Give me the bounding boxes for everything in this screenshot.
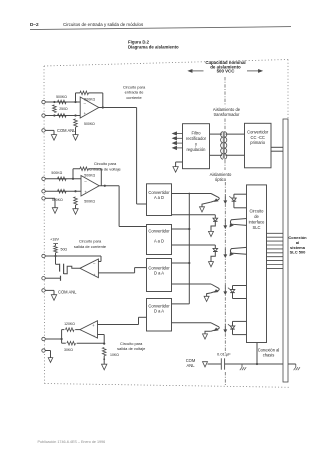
ground voltage output common xyxy=(48,358,53,363)
backplane connector bar xyxy=(283,119,288,382)
isolation barrier line upper segment xyxy=(224,77,226,106)
svg-text:500KΩ: 500KΩ xyxy=(84,173,95,177)
wire U2 output xyxy=(99,185,119,187)
terminal current output xyxy=(42,254,45,257)
optocoupler 1 photodetector xyxy=(234,193,247,195)
resistor 500K ohm series vin line2 xyxy=(58,189,67,193)
transistor Q1 gate bar xyxy=(63,264,65,274)
wire CC-CC to backplane 2 xyxy=(271,150,283,152)
A/D converter box 2 xyxy=(147,225,172,255)
svg-text:A a D: A a D xyxy=(154,195,164,200)
wire vin line 1 xyxy=(45,178,81,180)
svg-text:30KΩ: 30KΩ xyxy=(64,348,73,352)
wire converter1 to bus xyxy=(172,193,190,195)
wire feedback U1 xyxy=(75,93,77,102)
svg-text:SLC 500: SLC 500 xyxy=(290,250,307,255)
node feedback tap U2 xyxy=(72,178,74,180)
optocoupler 3 LED (from interface) xyxy=(230,247,246,254)
wire CC-CC to backplane 1 xyxy=(271,146,283,148)
wire filter to transformer top xyxy=(210,133,223,135)
wire voltage output common xyxy=(45,350,50,352)
svg-text:Diagrama de aislamiento: Diagrama de aislamiento xyxy=(128,44,179,49)
chassis ground 2 xyxy=(295,364,297,367)
svg-text:primario: primario xyxy=(250,140,266,145)
wire feedback U2 xyxy=(72,169,74,179)
wire filter to transformer bottom xyxy=(210,154,223,156)
resistor 120K ohm feedback U4 xyxy=(66,328,75,332)
wire xyxy=(75,118,77,120)
A/D converter box 1 xyxy=(147,184,172,216)
svg-text:COM ANL: COM ANL xyxy=(57,128,76,133)
chassis ground 1 xyxy=(241,364,243,367)
node U2 output/feedback xyxy=(104,185,106,187)
wire into A/D converter 1 xyxy=(137,203,147,205)
resistor 10K ohm to ground xyxy=(102,348,106,356)
wire transformer to CC-CC bottom xyxy=(226,154,245,156)
ground COM ANL (current output) xyxy=(51,295,56,301)
module dashed border bottom xyxy=(45,384,290,388)
terminal voltage input - xyxy=(42,190,45,193)
wire supply xyxy=(55,244,57,246)
terminal voltage input + xyxy=(42,177,45,180)
optocoupler 3 light arrow xyxy=(224,249,226,256)
isolation barrier line bottom segment xyxy=(224,372,226,386)
svg-text:D–2: D–2 xyxy=(30,22,39,27)
ground COM ANL bottom xyxy=(203,362,208,367)
node below 10K xyxy=(103,358,105,360)
wire filter box to ground xyxy=(176,161,183,163)
ground filter box xyxy=(173,167,178,173)
CC-CC primary converter box xyxy=(245,123,272,168)
wire COM ANL terminal xyxy=(45,129,54,131)
transistor Q1 xyxy=(55,256,57,264)
optocoupler 2 light arrow xyxy=(224,220,226,227)
optocoupler 1 light arrow xyxy=(224,195,226,202)
wire backplane bar to chassis xyxy=(288,363,296,365)
wire resistor to node xyxy=(55,253,57,256)
isolation barrier line above transformer xyxy=(224,119,226,131)
emitter plate Q1 xyxy=(60,276,62,281)
capacitor C1 0.01 uF xyxy=(220,358,222,369)
svg-text:de: de xyxy=(254,214,259,219)
supply tick +18V xyxy=(53,243,58,245)
wire converter4 to bus xyxy=(172,303,190,305)
wire U4 top input from D/A converter 2 xyxy=(98,324,139,326)
node bus/converter3 xyxy=(188,262,190,264)
wire COM ANL to capacitor xyxy=(208,363,222,365)
ground analog common (under U2) xyxy=(73,209,78,215)
node bus top xyxy=(188,193,190,195)
terminal voltage output common xyxy=(42,349,45,352)
op-amp U2 voltage input xyxy=(81,176,99,197)
svg-text:500KΩ: 500KΩ xyxy=(84,122,95,126)
wire input line 2 xyxy=(45,115,81,117)
resistor 500K ohm to ground U2 xyxy=(74,197,78,205)
svg-text:COM ANL: COM ANL xyxy=(58,290,77,295)
svg-text:Circuito para: Circuito para xyxy=(79,239,102,244)
wire into A/D converter 2 xyxy=(119,226,146,228)
svg-text:rectificador: rectificador xyxy=(186,136,207,141)
svg-text:D a A: D a A xyxy=(154,309,164,314)
wire input line 1 xyxy=(45,101,80,103)
bus vertical line xyxy=(188,194,190,304)
svg-text:Publicación 1746-6.4ES – Enero: Publicación 1746-6.4ES – Enero de 1996 xyxy=(38,440,106,444)
terminal COM ANL (current output) xyxy=(42,289,45,292)
module dashed border left xyxy=(43,66,46,384)
svg-text:corriente: corriente xyxy=(126,95,142,100)
svg-text:Convertidor: Convertidor xyxy=(247,129,269,134)
ground analog common (under U1) xyxy=(73,135,78,141)
SLC interface circuit box xyxy=(247,185,267,343)
resistor 500K ohm to ground U1 xyxy=(74,119,78,127)
svg-text:Filtro: Filtro xyxy=(191,130,201,135)
node U1 output/feedback xyxy=(102,106,104,108)
resistor 30K ohm input U4 xyxy=(67,341,76,345)
svg-text:A a D: A a D xyxy=(154,239,164,244)
svg-text:500KΩ: 500KΩ xyxy=(56,95,67,99)
wire capacitor to backplane bar xyxy=(225,363,283,365)
svg-text:500KΩ: 500KΩ xyxy=(84,98,95,102)
terminal voltage output xyxy=(42,337,45,340)
optocoupler 5 LED (from D/A 2) xyxy=(172,322,212,324)
ground COM ANL (current input) xyxy=(51,135,56,141)
optocoupler 2 photodetector xyxy=(172,214,215,216)
optocoupler 4 light arrow xyxy=(224,286,226,293)
wire converter3 to bus xyxy=(172,262,190,264)
wire voltage output xyxy=(45,338,61,340)
svg-text:regulación: regulación xyxy=(187,147,207,152)
wire converter2 to bus xyxy=(172,228,190,230)
wire vin line 2 xyxy=(45,190,81,192)
wire transformer to CC-CC top xyxy=(226,133,245,135)
backplane connector ladder xyxy=(267,232,284,234)
power distribution arrows xyxy=(177,133,183,135)
svg-text:500KΩ: 500KΩ xyxy=(51,171,62,175)
isolation barrier line below transformer xyxy=(224,160,226,170)
wire 10K to ground xyxy=(103,356,105,365)
ground under 10K xyxy=(102,364,107,370)
wire U1 output vertical xyxy=(136,108,138,205)
wire U4 - input xyxy=(98,334,105,336)
svg-text:SLC: SLC xyxy=(253,225,261,230)
transformer core xyxy=(222,132,224,159)
wire U1 output xyxy=(99,107,137,109)
wire Q1 gate to U3 output xyxy=(64,266,80,274)
terminal current input - xyxy=(42,114,45,117)
svg-text:250Ω: 250Ω xyxy=(59,107,68,111)
wire current output line xyxy=(45,255,101,257)
resistor 500K ohm feedback U2 xyxy=(80,167,89,171)
ground common (voltage input) xyxy=(52,208,57,214)
wire resistor to ground U2 xyxy=(75,205,77,209)
wire common terminal (voltage input) xyxy=(45,197,55,199)
node + input U1 xyxy=(74,114,76,116)
svg-text:D a A: D a A xyxy=(154,271,164,276)
wire current return xyxy=(45,277,60,279)
svg-text:interface: interface xyxy=(249,220,265,225)
svg-text:Convertidor: Convertidor xyxy=(148,228,170,233)
svg-text:+18V: +18V xyxy=(50,238,59,242)
optocoupler 4 LED (from D/A 1) xyxy=(172,283,212,285)
wire feedback 120K path xyxy=(61,330,63,339)
module dashed border top xyxy=(44,60,288,67)
resistor 250 ohm shunt xyxy=(53,105,57,113)
svg-text:50Ω: 50Ω xyxy=(61,248,68,252)
isolation span arrow left xyxy=(192,70,204,72)
terminal current input + xyxy=(42,100,45,103)
wire U3 + input from D/A converter 1 xyxy=(98,272,134,274)
svg-text:500 VCC: 500 VCC xyxy=(217,69,236,74)
transistor Q1 left plate xyxy=(59,264,61,272)
node + input U2 xyxy=(74,190,76,192)
op-amp U3 current output (faces left) xyxy=(80,259,99,278)
transformer T1 xyxy=(221,132,223,160)
node transistor collector xyxy=(54,255,56,257)
svg-text:salida de voltaje: salida de voltaje xyxy=(117,346,146,351)
terminal common (voltage input) xyxy=(42,197,45,200)
wire to U3 top input xyxy=(100,256,102,262)
wire interface box to common xyxy=(256,343,258,365)
isolation span arrow right xyxy=(247,70,259,72)
resistor 500K ohm series vin line1 xyxy=(58,177,67,181)
wire resistor to ground xyxy=(75,127,77,134)
isolation barrier line optical section xyxy=(224,182,226,356)
D/A converter box 1 xyxy=(147,259,172,292)
node feedback tap U1 xyxy=(74,101,76,103)
wire 30K path xyxy=(61,339,63,343)
svg-text:óptico: óptico xyxy=(215,177,227,182)
svg-text:transformador: transformador xyxy=(214,112,240,117)
resistor 50 ohm supply xyxy=(54,246,58,253)
node voltage output junction xyxy=(61,338,63,340)
D/A converter box 2 xyxy=(147,299,172,332)
node bus/converter2 xyxy=(188,228,190,230)
svg-text:CC -CC: CC -CC xyxy=(251,135,265,140)
svg-text:10KΩ: 10KΩ xyxy=(110,353,119,357)
svg-text:500KΩ: 500KΩ xyxy=(84,199,95,203)
svg-text:salida de corriente: salida de corriente xyxy=(74,244,107,249)
module dashed border right upper xyxy=(287,60,289,120)
svg-text:Circuitos de entrada y salida: Circuitos de entrada y salida de módulos xyxy=(63,22,144,27)
terminal current return xyxy=(42,277,45,280)
wire COM ANL (current output) xyxy=(45,289,54,291)
resistor 500K ohm feedback U1 xyxy=(80,91,89,95)
optocoupler 5 photodetector xyxy=(233,320,247,322)
svg-text:ANL: ANL xyxy=(187,363,196,368)
op-amp U1 current input xyxy=(80,97,99,118)
svg-text:Circuito para: Circuito para xyxy=(94,161,117,166)
svg-text:chasis: chasis xyxy=(263,352,275,357)
node U4 - input / 10K xyxy=(103,343,105,345)
wire U2 output vertical xyxy=(118,186,120,227)
resistor 500K ohm series line1 xyxy=(58,100,67,104)
op-amp U4 voltage output (faces left) xyxy=(80,321,98,338)
svg-text:120KΩ: 120KΩ xyxy=(64,322,75,326)
svg-text:Circuito: Circuito xyxy=(250,209,265,214)
svg-text:0.01 µF: 0.01 µF xyxy=(217,351,231,356)
node junction line1/shunt xyxy=(53,101,55,103)
resistor series line2 xyxy=(58,114,67,118)
optocoupler 5 light arrow xyxy=(224,324,226,330)
filter rectifier regulator box xyxy=(183,124,210,169)
node junction line2/shunt xyxy=(53,114,55,116)
optocoupler 3 photodetector xyxy=(172,244,216,246)
optocoupler 1 LED (from A/D 1) xyxy=(172,193,212,195)
header rule xyxy=(30,27,291,30)
optocoupler 2 LED (from interface) xyxy=(230,219,246,226)
terminal COM ANL (current input) xyxy=(42,129,45,132)
optocoupler 4 photodetector xyxy=(233,285,247,287)
node interface box ground xyxy=(256,363,258,365)
